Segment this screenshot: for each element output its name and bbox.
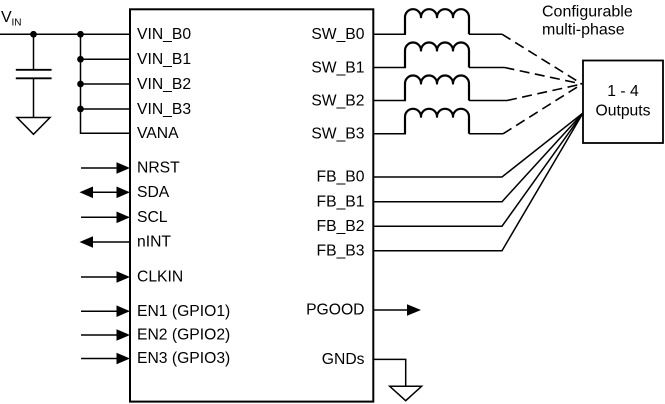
wire EN1 with input arrow [81,310,118,312]
main IC block U1 [130,9,373,401]
wire VIN bus vertical [81,34,131,133]
svg-text:SW_B3: SW_B3 [311,126,364,143]
wire VIN main horizontal [0,33,130,35]
svg-text:PGOOD: PGOOD [306,302,364,319]
wire VIN_B1 [81,58,131,60]
wire SW_B0 to inductor [373,33,406,35]
dashed line SW_B2 to outputs [507,84,582,101]
svg-text:V: V [1,9,12,26]
svg-text:VIN_B0: VIN_B0 [137,26,191,43]
output box 1-4 Outputs [583,61,663,144]
svg-text:Outputs: Outputs [596,103,651,120]
wire GNDs [373,359,405,386]
svg-text:SW_B0: SW_B0 [311,26,364,43]
svg-text:nINT: nINT [137,234,171,251]
inductor L4 [405,109,469,134]
wire inductor L2 out [469,67,505,69]
wire SCL with input arrow [81,216,118,218]
svg-text:SDA: SDA [137,184,170,201]
svg-text:SW_B2: SW_B2 [311,92,364,109]
wire nINT with output arrow [91,241,130,243]
svg-text:FB_B3: FB_B3 [317,242,365,259]
wire PGOOD with output arrow [373,309,409,311]
wire VIN_B2 [81,83,131,85]
dashed line SW_B1 to outputs [505,68,583,85]
svg-text:FB_B2: FB_B2 [317,218,365,235]
wire CLKIN with input arrow [81,276,118,278]
capacitor C1 input cap [16,69,52,71]
wire capacitor to ground [33,78,35,117]
ground symbol GNDs [390,386,422,400]
svg-text:GNDs: GNDs [322,351,365,368]
dashed line SW_B0 to outputs [502,34,582,84]
svg-text:multi-phase: multi-phase [542,22,625,39]
svg-text:FB_B1: FB_B1 [317,193,365,210]
wire SW_B2 to inductor [373,100,406,102]
junction dot VIN_B1 [77,56,84,63]
svg-text:EN2 (GPIO2): EN2 (GPIO2) [137,327,230,344]
wire FB_B1 [373,113,583,202]
svg-text:FB_B0: FB_B0 [317,169,365,186]
svg-text:Configurable: Configurable [542,3,633,20]
wire capacitor branch down [33,34,35,69]
wire inductor L4 out [469,133,503,135]
wire EN2 with input arrow [81,334,118,336]
ground symbol left [17,118,50,135]
wire inductor L1 out [469,33,502,35]
svg-text:VIN_B3: VIN_B3 [137,101,191,118]
svg-text:EN3 (GPIO3): EN3 (GPIO3) [137,350,230,367]
wire SW_B3 to inductor [373,133,406,135]
svg-text:CLKIN: CLKIN [137,269,183,286]
svg-text:EN1 (GPIO1): EN1 (GPIO1) [137,303,230,320]
dashed line SW_B3 to outputs [503,84,582,134]
wire NRST with input arrow [81,167,118,169]
inductor L3 [405,76,469,101]
svg-text:SW_B1: SW_B1 [311,59,364,76]
junction dot bus top [77,31,84,38]
wire FB_B3 [373,113,583,251]
svg-text:IN: IN [12,18,22,29]
wire EN3 with input arrow [81,358,118,360]
wire inductor L3 out [469,100,507,102]
wire VIN_B3 [81,108,131,110]
wire SDA bidirectional arrow [91,191,118,193]
inductor L2 [405,43,469,68]
junction dot at capacitor tap [30,31,37,38]
junction dot VIN_B3 [77,106,84,113]
svg-text:VANA: VANA [137,125,179,142]
inductor L1 [405,9,469,34]
svg-text:VIN_B2: VIN_B2 [137,76,191,93]
junction dot VIN_B2 [77,81,84,88]
svg-text:1 - 4: 1 - 4 [607,83,639,100]
wire SW_B1 to inductor [373,67,406,69]
svg-text:NRST: NRST [137,160,180,177]
wire FB_B0 [373,113,583,177]
wire FB_B2 [373,113,583,226]
svg-text:SCL: SCL [137,209,168,226]
svg-text:VIN_B1: VIN_B1 [137,51,191,68]
